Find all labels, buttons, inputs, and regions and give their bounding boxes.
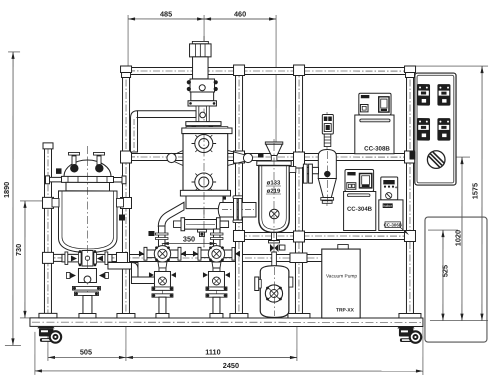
node right enclosure box bbox=[425, 217, 487, 342]
wire riser pipe to pump2 bbox=[155, 226, 168, 248]
node overlay centerline reactor bbox=[86, 158, 88, 266]
svg-text:2450: 2450 bbox=[223, 361, 239, 370]
gauge digital instrument on separator bbox=[322, 115, 333, 135]
node overlay centerline cold trap bbox=[273, 267, 275, 316]
node reactor main flange bbox=[62, 176, 114, 182]
node pump GP1 mounting flanges bbox=[72, 286, 100, 295]
node vapour arm flange pair bbox=[233, 196, 243, 223]
valve nozzle N1 on reactor head bbox=[69, 152, 80, 172]
vessel reactor neck bbox=[66, 182, 110, 191]
node post P4 bbox=[295, 66, 302, 318]
node column vessel lid bbox=[182, 127, 232, 134]
wire dimension extension line x=128 top bbox=[127, 15, 129, 66]
dimension 2450 bottom bbox=[35, 326, 423, 375]
node fitting P3 rail B bbox=[234, 151, 245, 163]
panel CC-308B controller head bbox=[359, 93, 391, 115]
node sight glass bolt ticks lower bbox=[195, 173, 212, 190]
node heater cylinder under column bbox=[173, 218, 228, 231]
node reactor jacket inner line bbox=[62, 191, 114, 249]
svg-text:1020: 1020 bbox=[453, 230, 462, 246]
node reactor bottom cone outlet bbox=[81, 252, 93, 258]
svg-text:485: 485 bbox=[160, 9, 172, 18]
node fitting P5 rail E bbox=[404, 231, 415, 242]
valve drain under heater bbox=[197, 229, 206, 236]
wire stub from drain valve down bbox=[272, 252, 277, 266]
node base plate P2 bbox=[117, 313, 135, 318]
vessel receiver body bbox=[259, 166, 290, 233]
node column seal housing bbox=[191, 92, 214, 101]
node separator bellows bbox=[324, 134, 331, 147]
dimension 1110 bottom bbox=[126, 326, 297, 361]
node sight glass bolt ticks upper bbox=[195, 135, 212, 152]
node column support posts bbox=[196, 106, 209, 122]
node column right trunnion on rail B bbox=[228, 150, 253, 165]
pump gear pump GP1 body bbox=[66, 268, 108, 282]
vessel cold trap bbox=[260, 266, 289, 318]
wire vapour arm to receiver bbox=[218, 202, 256, 217]
svg-text:TRP-XX: TRP-XX bbox=[336, 308, 355, 314]
node reactor left stub nozzle bbox=[46, 176, 62, 184]
caster wheel left bbox=[37, 326, 62, 343]
node overlay centerline receiver bbox=[273, 143, 275, 252]
vessel column lower chamber bbox=[186, 196, 223, 209]
node separator centerline bbox=[326, 112, 328, 206]
node base plate P5 bbox=[399, 314, 421, 319]
node fitting P4 rail B bbox=[294, 152, 305, 168]
node cyclone funnel bbox=[265, 142, 283, 163]
svg-text:CC-308B: CC-308B bbox=[364, 146, 390, 153]
panel CC-304B controller head bbox=[345, 170, 374, 192]
wire extension line bottom right bbox=[430, 320, 488, 322]
wire dimension extension line x=204 top bbox=[203, 15, 205, 42]
gauge meter B1 bbox=[417, 118, 430, 141]
vessel reactor jacket body bbox=[58, 191, 117, 253]
node motor stand neck bbox=[193, 57, 209, 79]
node fitting P2 rail D bbox=[116, 252, 127, 263]
wire top rail A bbox=[126, 67, 410, 74]
node cold trap sight glass bbox=[265, 285, 282, 302]
gauge meter B2 bbox=[437, 118, 450, 141]
dimension 525 right bbox=[428, 230, 458, 321]
svg-text:1110: 1110 bbox=[205, 347, 220, 356]
node sight glass upper bbox=[192, 134, 217, 152]
dimension 350 between risers bbox=[162, 234, 217, 245]
dimension 730 left bbox=[14, 201, 44, 318]
wire riser pipe to pump3 bbox=[210, 229, 223, 248]
wire pipe P4 to separator bbox=[303, 167, 319, 173]
vessel reactor dished head bbox=[64, 160, 111, 177]
node post P3 bbox=[235, 66, 242, 318]
node fitting P2 rail C bbox=[120, 197, 131, 208]
svg-text:1890: 1890 bbox=[2, 182, 11, 198]
dimension 1890 left bbox=[2, 52, 21, 346]
panel haber controller upper bbox=[381, 177, 398, 200]
node fitting P5 rail B bbox=[405, 151, 416, 163]
svg-text:haber: haber bbox=[383, 204, 393, 208]
svg-text:CC-306B: CC-306B bbox=[384, 222, 402, 227]
node cold trap right lug bbox=[289, 277, 293, 287]
wire L-pipe from pump1 manifold to pump2 bbox=[108, 262, 159, 283]
motor M1 on column top bbox=[190, 41, 212, 56]
node fitting P1 rail C bbox=[42, 197, 53, 208]
valve dark tick under flange right bbox=[220, 197, 226, 200]
node reactor right jacket nozzle at rail C bbox=[116, 198, 123, 207]
valve vent left of heater bbox=[148, 231, 165, 236]
panel haber controller body bbox=[379, 200, 409, 235]
node base plate P4 bbox=[288, 314, 310, 319]
valve nozzle N2 on reactor head bbox=[94, 152, 105, 172]
node receiver centerline bbox=[273, 139, 275, 316]
node reactor right stub nozzle bbox=[114, 176, 127, 184]
node receiver bottom nozzle bbox=[271, 233, 276, 241]
dimension 460 top bbox=[204, 9, 276, 20]
node breaker knob bbox=[427, 151, 445, 169]
node fitting P4 rail E bbox=[293, 231, 304, 242]
valve manifold cross under reactor bbox=[62, 250, 112, 266]
wire dimension extension line x=276 top bbox=[275, 15, 277, 147]
svg-text:505: 505 bbox=[80, 347, 92, 356]
node column centerline bbox=[203, 36, 205, 252]
node reactor centerline bbox=[86, 146, 88, 313]
svg-text:525: 525 bbox=[440, 265, 449, 277]
vessel separator body bbox=[318, 150, 336, 204]
node reactor left jacket nozzle at rail C bbox=[52, 198, 59, 207]
node fitting P2 rail B bbox=[121, 151, 132, 163]
wire left rail C bbox=[44, 199, 130, 206]
node overlay centerline column bbox=[203, 134, 205, 250]
panel CC-304B body bbox=[344, 192, 376, 231]
node base plate P1 bbox=[39, 313, 57, 318]
svg-text:350: 350 bbox=[183, 234, 195, 243]
dimension 505 bottom bbox=[48, 326, 126, 361]
node column drive coupling bbox=[187, 79, 218, 92]
svg-text:CC-304B: CC-304B bbox=[347, 207, 373, 213]
wire residue outlet diagonal pipe bbox=[158, 202, 184, 226]
node column lid mounting plate bbox=[186, 122, 221, 129]
node sight glass lower bbox=[191, 173, 216, 191]
gauge meter A2 bbox=[437, 84, 450, 106]
node receiver top flange bbox=[257, 161, 291, 166]
svg-text:+: + bbox=[395, 185, 398, 190]
node receiver diameter labels bbox=[266, 181, 281, 195]
valve small tick left of funnel bbox=[258, 153, 264, 158]
pump assembly GP3 bbox=[193, 244, 240, 318]
svg-text:Vacuum Pump: Vacuum Pump bbox=[326, 274, 357, 280]
node overlay centerline separator bbox=[326, 151, 328, 203]
node fitting P3 rail A bbox=[234, 65, 245, 76]
wire feed pipe from post P2 to column bbox=[131, 111, 197, 152]
node receiver sight glass bbox=[269, 209, 279, 219]
pump assembly GP2 bbox=[139, 244, 186, 318]
svg-text:730: 730 bbox=[14, 244, 23, 256]
node post P1 bbox=[43, 143, 53, 318]
node pump GP1 support column bbox=[79, 296, 96, 318]
valve small dark tick reactor lower right bbox=[119, 214, 125, 220]
dimension 1020 right bbox=[415, 157, 470, 321]
node separator inlet flange pair bbox=[303, 164, 312, 183]
node receiver inner wall bbox=[262, 166, 287, 230]
wire right lower rail E bbox=[239, 232, 410, 239]
node post P5 bbox=[406, 66, 413, 318]
node base beam bbox=[30, 318, 423, 327]
valve small side tick on reactor head left bbox=[56, 168, 62, 174]
svg-text:1575: 1575 bbox=[470, 183, 479, 199]
node column left trunnion on rail B bbox=[167, 150, 183, 165]
node frame corner elbow top-right bbox=[405, 66, 416, 78]
node fitting P1 rail D bbox=[42, 252, 53, 263]
gauge meter A1 bbox=[417, 84, 430, 106]
svg-text:460: 460 bbox=[234, 9, 246, 18]
node column bottom flange bbox=[180, 190, 230, 196]
node base plate P3 bbox=[230, 313, 248, 318]
dimension 485 top bbox=[128, 9, 204, 20]
node cold trap left flange bbox=[255, 277, 262, 291]
valve receiver drain valve bbox=[268, 241, 285, 253]
valve dark ball in separator bbox=[324, 171, 330, 177]
wire lower rail D bbox=[44, 254, 322, 261]
node post P2 bbox=[122, 66, 129, 318]
node fitting P4 rail D bbox=[290, 253, 307, 263]
panel CC-308B body bbox=[355, 115, 394, 154]
node fitting P4 rail A bbox=[294, 65, 305, 76]
dimension 1575 right bbox=[415, 66, 488, 321]
vessel column body bbox=[183, 134, 228, 191]
wire receiver to post P4 stub bbox=[289, 167, 296, 173]
node frame corner elbow top-left bbox=[121, 66, 132, 78]
caster wheel right bbox=[397, 327, 422, 344]
wire mid rail B bbox=[126, 153, 410, 160]
node fitting P3 rail E bbox=[233, 230, 244, 241]
node column top flange bbox=[188, 101, 216, 106]
